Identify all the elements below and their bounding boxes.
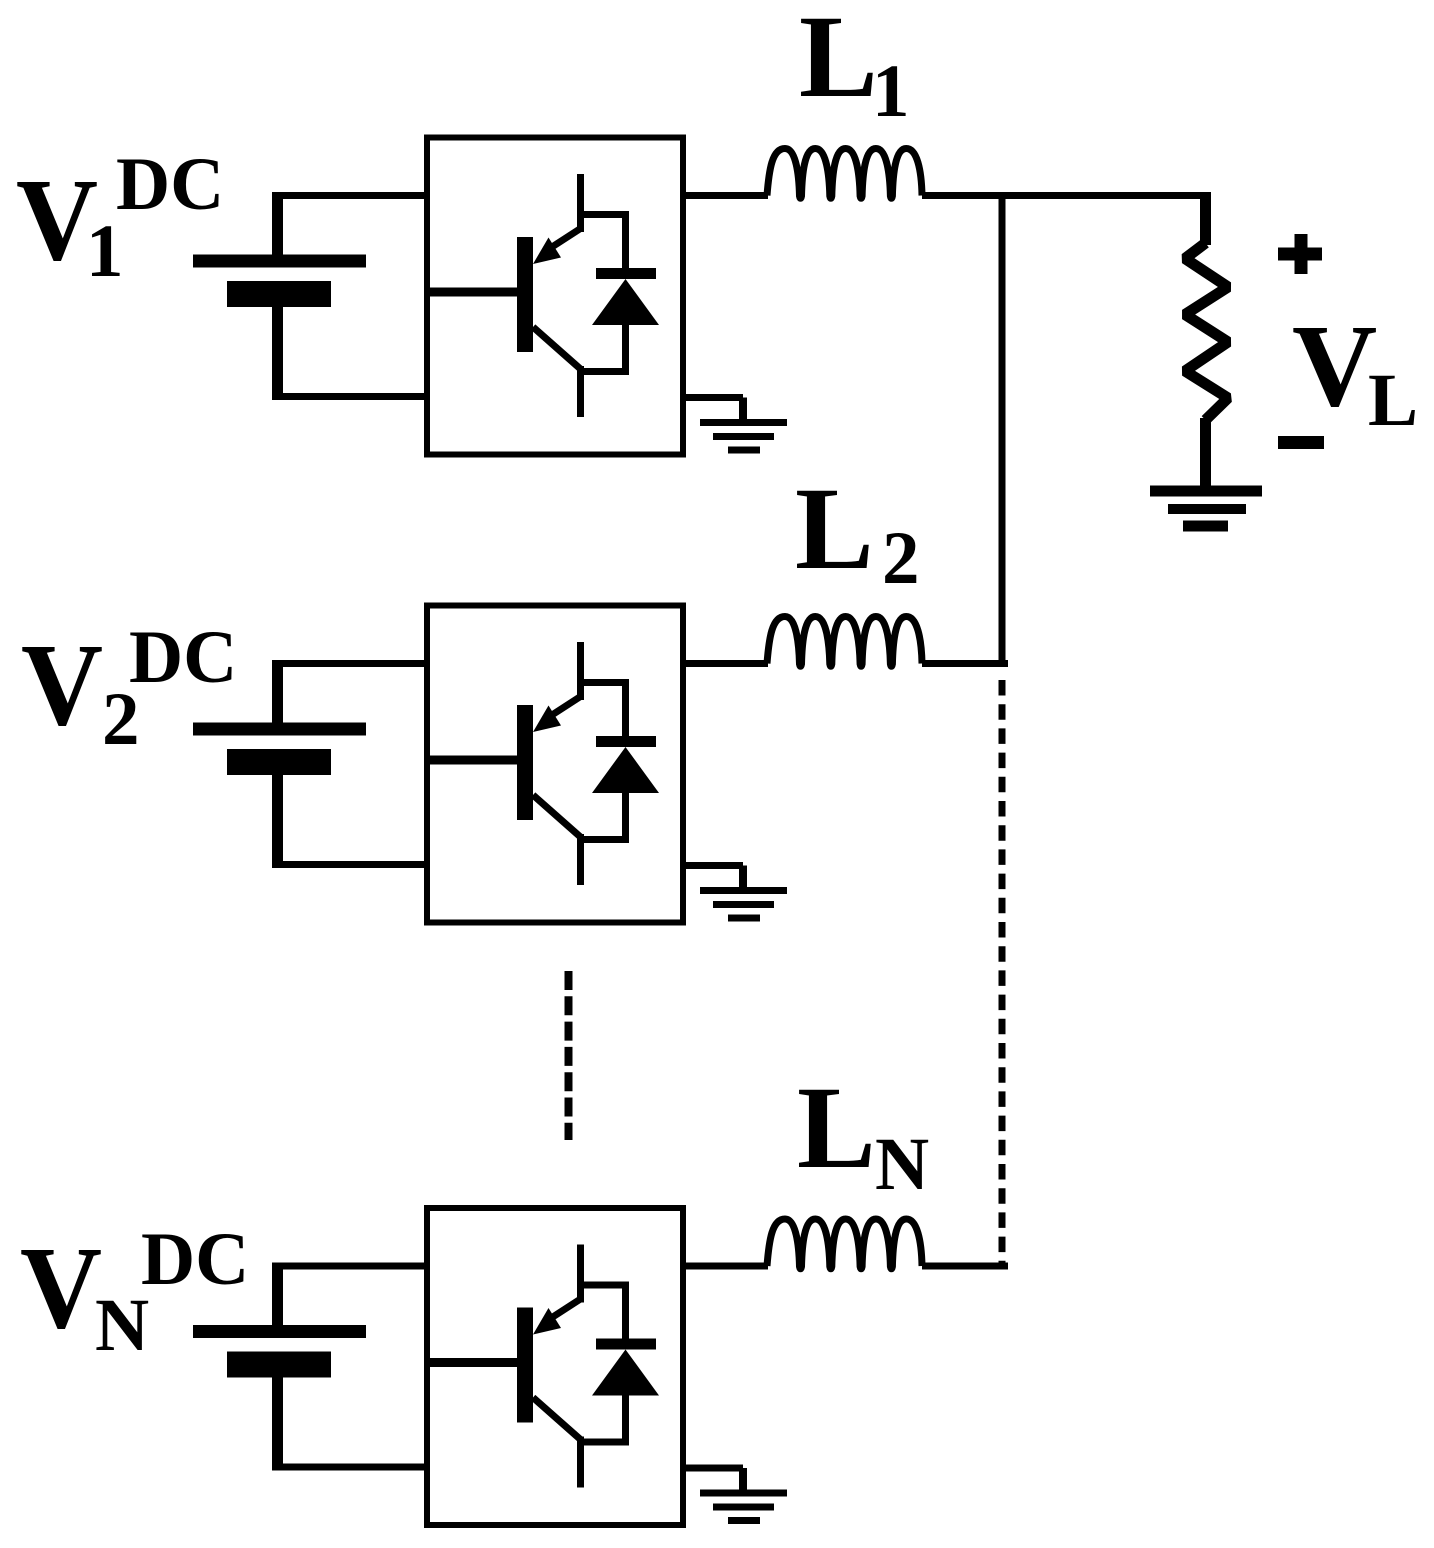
diode D2 anode lead	[622, 793, 629, 843]
battery VN positive plate	[193, 1325, 366, 1338]
wire battery VN negative lead vertical	[272, 1365, 283, 1471]
load ground bar 3	[1183, 521, 1228, 532]
battery V1 positive plate	[193, 255, 366, 268]
svg-text:2: 2	[882, 517, 920, 600]
diode D2 triangle	[592, 747, 659, 793]
ground U2 bar 1	[700, 887, 787, 894]
wire converter UN to ground vertical	[739, 1468, 747, 1494]
wire converter U1 output	[680, 192, 768, 199]
IGBT Q2 collector lead vertical	[577, 642, 584, 700]
IGBT QN collector lead vertical	[577, 1245, 584, 1303]
ground UN bar 1	[700, 1490, 787, 1497]
inductor LN coil	[767, 1219, 922, 1269]
diode D1 cathode lead	[622, 211, 629, 270]
diode D1 triangle	[592, 279, 659, 325]
IGBT Q2 emitter diagonal	[533, 795, 581, 837]
diode D1 cathode bar	[596, 268, 656, 279]
wire battery VN bottom lead horizontal	[273, 1464, 430, 1471]
wire bus vertical solid (node A to node B)	[999, 192, 1006, 667]
svg-text:V: V	[1292, 300, 1377, 431]
IGBT Q2 gate line	[430, 756, 517, 765]
IGBT Q1 gate bar	[517, 237, 533, 352]
wire battery V2 negative lead vertical	[272, 762, 283, 868]
ground U1 bar 2	[713, 433, 774, 440]
wire converter UN to ground horizontal	[680, 1465, 743, 1472]
IGBT QN gate bar	[517, 1308, 533, 1423]
IGBT QN gate line	[430, 1358, 517, 1367]
wire load branch top vertical	[1200, 192, 1211, 245]
svg-text:L: L	[795, 463, 874, 594]
wire L2 to bus node	[922, 660, 1008, 667]
IGBT Q1 emitter lead vertical	[577, 366, 584, 417]
IGBT Q1 gate line	[430, 288, 517, 297]
wire battery V1 top lead horizontal	[273, 192, 430, 199]
battery V2 positive plate	[193, 723, 366, 736]
IGBT Q2 collector arrowhead	[533, 706, 561, 733]
resistor RL (load) zigzag	[1185, 243, 1228, 420]
IGBT Q1 collector diagonal	[545, 229, 581, 252]
IGBT Q2 collector diagonal	[545, 697, 581, 720]
wire battery V2 bottom lead horizontal	[273, 861, 430, 868]
converter UN box outline	[427, 1208, 683, 1525]
wire battery V2 top lead horizontal	[273, 660, 430, 667]
load ground bar 1	[1150, 486, 1262, 497]
wire converter U2 to ground horizontal	[680, 862, 743, 869]
diode DN cathode lead	[622, 1282, 629, 1341]
IGBT Q2 gate bar	[517, 705, 533, 820]
plus sign horizontal stroke	[1278, 248, 1322, 261]
svg-text:L: L	[799, 0, 878, 122]
inductor L2 coil	[767, 617, 922, 667]
diode D1 anode lead	[622, 325, 629, 375]
ground U2 bar 2	[713, 901, 774, 908]
ground U1 bar 1	[700, 419, 787, 426]
inductor L1 coil	[767, 149, 922, 199]
diode D1 branch bottom wire	[577, 368, 629, 375]
ground UN bar 3	[728, 1517, 760, 1524]
svg-text:N: N	[875, 1123, 929, 1206]
wire converter U2 to ground vertical	[739, 866, 747, 892]
wire converter U2 output	[680, 660, 768, 667]
converter U1 box outline	[427, 138, 683, 455]
svg-text:DC: DC	[129, 616, 237, 699]
wire battery V1 positive lead vertical	[272, 192, 283, 261]
wire battery V1 bottom lead horizontal	[273, 393, 430, 400]
svg-text:L: L	[797, 1062, 876, 1193]
IGBT QN collector diagonal	[545, 1299, 581, 1322]
svg-text:V: V	[21, 619, 103, 750]
svg-text:DC: DC	[116, 143, 224, 226]
diode D2 branch top wire	[577, 679, 629, 686]
diode DN triangle	[592, 1350, 659, 1396]
battery V1 negative plate	[227, 281, 331, 307]
svg-text:L: L	[1368, 359, 1418, 442]
svg-text:1: 1	[872, 50, 910, 133]
wire converter U1 to ground horizontal	[680, 394, 743, 401]
plus sign vertical stroke	[1295, 234, 1308, 274]
ground UN bar 2	[713, 1504, 774, 1511]
wire converter U1 to ground vertical	[739, 398, 747, 424]
IGBT QN emitter diagonal	[533, 1398, 581, 1440]
ground U1 bar 3	[728, 447, 760, 454]
diode DN anode lead	[622, 1396, 629, 1446]
diode DN branch bottom wire	[577, 1439, 629, 1446]
IGBT Q1 collector lead vertical	[577, 174, 584, 232]
diode D2 cathode bar	[596, 736, 656, 747]
IGBT Q2 emitter lead vertical	[577, 834, 584, 885]
ellipsis dotted line between converter 2 and converter N	[565, 971, 573, 1140]
diode D2 branch bottom wire	[577, 836, 629, 843]
IGBT Q1 collector arrowhead	[533, 238, 561, 265]
IGBT QN emitter lead vertical	[577, 1437, 584, 1488]
wire bus vertical dashed (node B to node C)	[999, 680, 1006, 1266]
ground U2 bar 3	[728, 915, 760, 922]
converter U2 box outline	[427, 606, 683, 923]
wire battery VN top lead horizontal	[273, 1263, 430, 1270]
load ground bar 2	[1168, 504, 1246, 514]
diode D1 branch top wire	[577, 211, 629, 218]
diode D2 cathode lead	[622, 679, 629, 738]
IGBT Q1 emitter diagonal	[533, 327, 581, 369]
wire L1 to load node	[922, 192, 1211, 199]
IGBT QN collector arrowhead	[533, 1308, 561, 1335]
wire battery V2 positive lead vertical	[272, 660, 283, 729]
battery V2 negative plate	[227, 749, 331, 775]
wire battery V1 negative lead vertical	[272, 294, 283, 400]
minus sign	[1278, 436, 1324, 449]
wire LN to bus node	[922, 1263, 1008, 1270]
diode DN cathode bar	[596, 1339, 656, 1350]
battery VN negative plate	[227, 1352, 331, 1378]
wire load branch bottom vertical	[1200, 418, 1211, 491]
wire converter UN output	[680, 1263, 768, 1270]
svg-text:DC: DC	[141, 1218, 249, 1301]
wire battery VN positive lead vertical	[272, 1263, 283, 1332]
svg-text:V: V	[20, 1222, 102, 1353]
diode DN branch top wire	[577, 1282, 629, 1289]
